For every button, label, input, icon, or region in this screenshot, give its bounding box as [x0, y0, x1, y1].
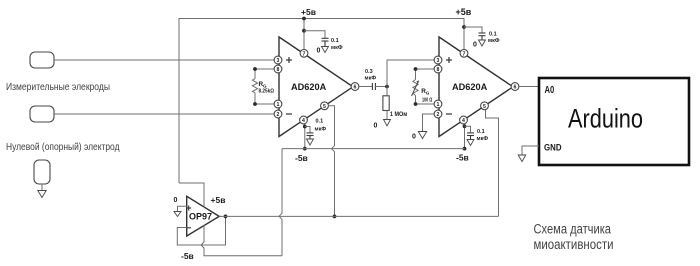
op-amp U3 OP97	[187, 196, 220, 236]
svg-text:GND: GND	[544, 143, 562, 153]
label - input	[446, 113, 452, 115]
svg-text:мкФ: мкФ	[488, 38, 500, 44]
wire pin4 U2 to -5V rail	[464, 124, 466, 149]
capacitor C1 0.1uF	[322, 38, 329, 46]
svg-text:-5в: -5в	[295, 153, 308, 163]
svg-text:8: 8	[277, 67, 280, 73]
svg-text:0.1: 0.1	[489, 32, 497, 38]
svg-text:3: 3	[437, 58, 440, 64]
wire -5V rail	[282, 148, 465, 150]
pin 5	[321, 102, 329, 110]
wire node to pin3 U2	[387, 60, 434, 87]
svg-text:AD620A: AD620A	[291, 82, 327, 92]
svg-text:Arduino: Arduino	[568, 104, 643, 134]
pin 6	[351, 83, 359, 91]
capacitor C5 0.1uF	[467, 133, 474, 140]
wire OP97 V- (hop over feedback)	[201, 225, 282, 256]
wire pin4 U1 to -5V rail	[304, 124, 306, 149]
wire electrode1 to pin3 U1	[54, 59, 274, 61]
pin 3	[274, 56, 282, 64]
wire +5V top rail	[179, 19, 464, 184]
svg-text:0.1: 0.1	[316, 119, 324, 125]
wire electrode2 to pin2 U1	[54, 113, 274, 115]
junction	[333, 215, 337, 219]
wire pin7 U1 to rail	[303, 19, 305, 50]
pin 7	[460, 49, 468, 57]
svg-text:мкФ: мкФ	[477, 136, 489, 142]
svg-text:0: 0	[374, 123, 378, 130]
ground	[307, 139, 314, 145]
wire OP97 +input to ground	[178, 206, 187, 211]
pin 1	[274, 100, 282, 108]
wire cap C5 branch	[465, 126, 471, 133]
pin 3	[434, 56, 442, 64]
svg-text:миоактивности: миоактивности	[534, 237, 614, 252]
resistor R1 1MOhm	[383, 87, 408, 120]
wire pin5 U2 to REF line	[486, 110, 499, 216]
pin 5	[481, 102, 489, 110]
junction	[463, 147, 467, 151]
pin 6	[511, 83, 519, 91]
svg-text:A0: A0	[545, 85, 555, 96]
pin 8	[274, 65, 282, 73]
svg-text:4: 4	[462, 118, 465, 124]
junction	[302, 17, 306, 21]
svg-text:0: 0	[412, 134, 416, 141]
svg-text:0: 0	[317, 48, 321, 55]
junction	[303, 147, 307, 151]
op-amp U2 AD620A	[439, 37, 513, 137]
junction	[303, 125, 307, 129]
ground	[174, 212, 181, 217]
wire pin2 U2 to ground	[423, 114, 434, 132]
ground	[322, 47, 329, 53]
svg-text:1: 1	[437, 102, 440, 108]
label + input	[286, 57, 292, 63]
capacitor C4 0.1uF	[479, 33, 486, 40]
label - input	[186, 227, 191, 229]
junction	[463, 124, 467, 128]
ground	[479, 40, 486, 46]
svg-text:5: 5	[323, 104, 326, 110]
svg-text:OP97: OP97	[189, 212, 212, 222]
svg-text:3: 3	[277, 58, 280, 64]
wire C3 to node	[375, 86, 387, 88]
wire Arduino GND to ground	[522, 146, 539, 155]
junction	[302, 29, 306, 33]
svg-text:6: 6	[514, 85, 517, 91]
electrode pad 1	[30, 52, 54, 68]
svg-text:0: 0	[174, 197, 178, 204]
svg-text:+5в: +5в	[301, 7, 316, 17]
svg-text:-5в: -5в	[456, 153, 469, 163]
wire electrode3 stub	[41, 184, 43, 191]
ground	[518, 155, 526, 162]
svg-text:мкФ: мкФ	[331, 45, 343, 51]
svg-text:8.25kΩ: 8.25kΩ	[259, 88, 275, 94]
label + input	[186, 206, 191, 211]
wire U1 output to C3	[359, 86, 372, 88]
svg-text:2: 2	[437, 112, 440, 118]
svg-text:2: 2	[277, 112, 280, 118]
wire OP97 output REF line	[219, 215, 498, 217]
wire cap C4 branch	[464, 27, 482, 33]
svg-text:-5в: -5в	[181, 251, 194, 261]
svg-text:0.1: 0.1	[331, 38, 339, 44]
svg-text:AD620A: AD620A	[452, 82, 488, 92]
pin 4	[300, 116, 308, 124]
electrode pad 3	[34, 160, 50, 184]
pin 1	[434, 100, 442, 108]
pin 7	[300, 49, 308, 57]
wire pin5 U1 to REF line (hop over -5V rail)	[329, 106, 335, 217]
label - input	[286, 113, 292, 115]
capacitor C2 0.1uF	[307, 133, 314, 139]
svg-text:1 МОм: 1 МОм	[390, 111, 408, 118]
wire OP97 V+ from rail	[179, 183, 204, 208]
label + input	[446, 57, 452, 63]
ground	[467, 140, 474, 146]
resistor RG2 100 Ohm variable	[412, 67, 434, 106]
svg-text:мкФ: мкФ	[365, 76, 377, 82]
capacitor C3 0.3uF	[372, 83, 375, 90]
svg-text:+5в: +5в	[211, 195, 226, 205]
svg-text:1: 1	[277, 102, 280, 108]
svg-text:Схема датчика: Схема датчика	[534, 221, 612, 236]
wire cap C1 branch	[304, 31, 325, 38]
pin 8	[434, 65, 442, 73]
electrode pad 2	[30, 106, 54, 122]
svg-text:0.1: 0.1	[477, 129, 485, 135]
ground	[38, 191, 46, 198]
svg-text:0: 0	[473, 42, 477, 49]
junction	[224, 215, 228, 219]
junction	[462, 25, 466, 29]
svg-text:Нулевой (опорный) электрод: Нулевой (опорный) электрод	[6, 141, 120, 153]
svg-text:6: 6	[354, 85, 357, 91]
svg-text:G: G	[426, 91, 430, 96]
ground	[418, 132, 426, 139]
op-amp U1 AD620A	[279, 37, 353, 137]
svg-text:7: 7	[463, 51, 466, 57]
wire U2 output to Arduino A0	[519, 86, 539, 88]
wire OP97 feedback	[177, 216, 225, 245]
svg-text:мкФ: мкФ	[315, 126, 327, 132]
svg-text:Измерительные элекроды: Измерительные элекроды	[6, 81, 110, 93]
wire -5V to OP97 V- (hop over REF line)	[279, 149, 282, 256]
svg-text:4: 4	[302, 118, 305, 124]
wire cap C2 branch	[305, 127, 310, 133]
svg-text:+5в: +5в	[456, 7, 472, 17]
ground	[384, 120, 391, 126]
svg-text:5: 5	[483, 104, 486, 110]
svg-text:7: 7	[303, 51, 306, 57]
svg-text:100 Ω: 100 Ω	[422, 97, 433, 103]
resistor RG1 8.25k	[252, 67, 274, 106]
pin 2	[274, 110, 282, 118]
junction	[385, 85, 389, 89]
pin 4	[460, 116, 468, 124]
pin 2	[434, 110, 442, 118]
svg-text:8: 8	[437, 67, 440, 73]
Arduino box	[539, 78, 689, 165]
svg-text:0.3: 0.3	[365, 69, 373, 75]
